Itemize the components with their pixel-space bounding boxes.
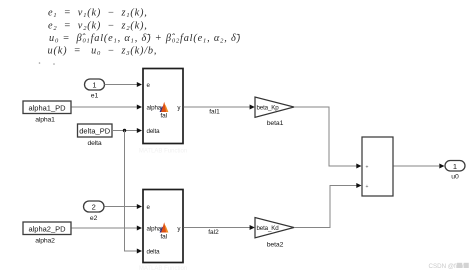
arrowhead beta2 input [250,225,255,230]
svg-text:fal: fal [160,113,167,120]
svg-text:2: 2 [92,203,96,212]
svg-text:fal: fal [160,234,167,241]
wire alpha1_PD to fal1 alpha [72,106,138,108]
inport 2 oval e2 [84,201,105,212]
arrowhead outport u0 [439,164,444,169]
svg-text:alpha1_PD: alpha1_PD [28,104,66,113]
equation line 1: e1 = v1(k) - z1(k), [48,8,148,20]
wire e2 to fal2 e [105,206,138,208]
svg-text:alpha2_PD: alpha2_PD [28,225,66,234]
svg-text:beta2: beta2 [267,241,284,248]
gain beta2 triangle beta_Kd [255,218,294,238]
label u0 [451,174,459,181]
arrowhead beta1 input [250,105,255,110]
equation line 4: u(k) = u0 - z3(k)/b, [48,46,158,58]
gain beta1 triangle beta_Kp [255,97,294,117]
svg-text:alpha: alpha [147,104,162,111]
block alpha1_PD [23,101,71,114]
wire delta_PD to fal1 delta [112,130,138,132]
label e1 [91,93,99,100]
arrowhead delta input block2 [137,249,142,254]
wire junction down to fal2 delta [125,131,138,252]
wire alpha2_PD to fal2 alpha [72,227,138,229]
MATLAB Function block fal (lower) [143,190,183,263]
arrowhead alpha input block2 [137,226,142,231]
faint label under upper fal block [139,149,187,155]
block delta_PD [78,124,113,137]
svg-text:beta_Kd: beta_Kd [257,225,280,232]
svg-text:delta: delta [147,128,161,135]
wire beta1 to sum input 1 [294,107,357,166]
svg-text:e: e [147,204,151,211]
wire e1 to fal1 e [105,84,138,86]
wire label fal1 [209,109,220,116]
svg-text:u0 = β̂01fal(e1, α1, δ̃) + β̂: u0 = β̂01fal(e1, α1, δ̃) + β̂02fal(e1, α… [49,33,241,45]
label e2 [90,215,98,222]
svg-text:+: + [366,164,369,170]
svg-text:delta: delta [147,248,161,255]
svg-text:e1 = v1(k) − z1(k),: e1 = v1(k) − z1(k), [48,8,148,20]
svg-text:MATLAB Function: MATLAB Function [139,149,187,155]
MATLAB logo (lower fal block) [160,222,169,232]
svg-text:u0: u0 [451,174,459,181]
svg-text:beta1: beta1 [267,120,284,127]
svg-text:alpha2: alpha2 [35,238,55,245]
label beta2 [267,241,284,248]
svg-text:alpha: alpha [147,225,162,232]
ellipsis dots below equations [39,62,55,65]
svg-text:fal2: fal2 [208,229,219,236]
arrowhead alpha input block1 [137,105,142,110]
block alpha2_PD [23,222,71,235]
svg-text:beta_Kp: beta_Kp [257,105,280,112]
label beta1 [267,120,284,127]
junction dot on delta wire [123,129,126,132]
wire beta2 to sum input 2 [294,186,357,228]
label alpha1 [35,117,55,124]
svg-text:e: e [147,82,151,89]
label delta [88,140,102,147]
faint label under lower fal block [139,266,187,272]
svg-text:delta: delta [88,140,102,147]
sum block Add [362,137,393,196]
wire fal1 y to beta1 [184,106,251,108]
svg-text:1: 1 [453,162,457,171]
equation line 3: u0 = b01 fal(e1,a1,d) + b02 fal(e1,a2,d) [49,33,241,45]
svg-text:e2: e2 [90,215,98,222]
arrowhead e input block1 [137,82,142,87]
arrowhead sum input 1 [356,164,361,169]
arrowhead delta input block1 [137,128,142,133]
label fal inside upper block [160,113,167,120]
svg-text:MATLAB Function: MATLAB Function [139,266,187,272]
wire label fal2 [208,229,219,236]
CSDN watermark [429,263,469,270]
wire fal2 y to beta2 [184,227,251,229]
arrowhead sum input 2 [356,183,361,188]
MATLAB logo (upper fal block) [160,102,169,112]
svg-text:u(k) = u0 − z3(k)/b,: u(k) = u0 − z3(k)/b, [48,46,158,58]
svg-text:alpha1: alpha1 [35,117,55,124]
svg-text:fal1: fal1 [209,109,220,116]
svg-text:delta_PD: delta_PD [79,127,110,136]
svg-text:e1: e1 [91,93,99,100]
label fal inside lower block [160,234,167,241]
equation line 2: e2 = v2(k) - z2(k), [48,21,148,33]
label alpha2 [35,238,55,245]
wire sum to outport u0 [394,165,440,167]
outport 1 oval u0 [445,161,465,172]
svg-text:1: 1 [92,81,96,90]
MATLAB Function block fal (upper) [143,69,183,144]
svg-text:+: + [366,184,369,190]
svg-text:e2 = v2(k) − z2(k),: e2 = v2(k) − z2(k), [48,21,148,33]
arrowhead e input block2 [137,204,142,209]
inport 1 oval e1 [85,79,105,90]
